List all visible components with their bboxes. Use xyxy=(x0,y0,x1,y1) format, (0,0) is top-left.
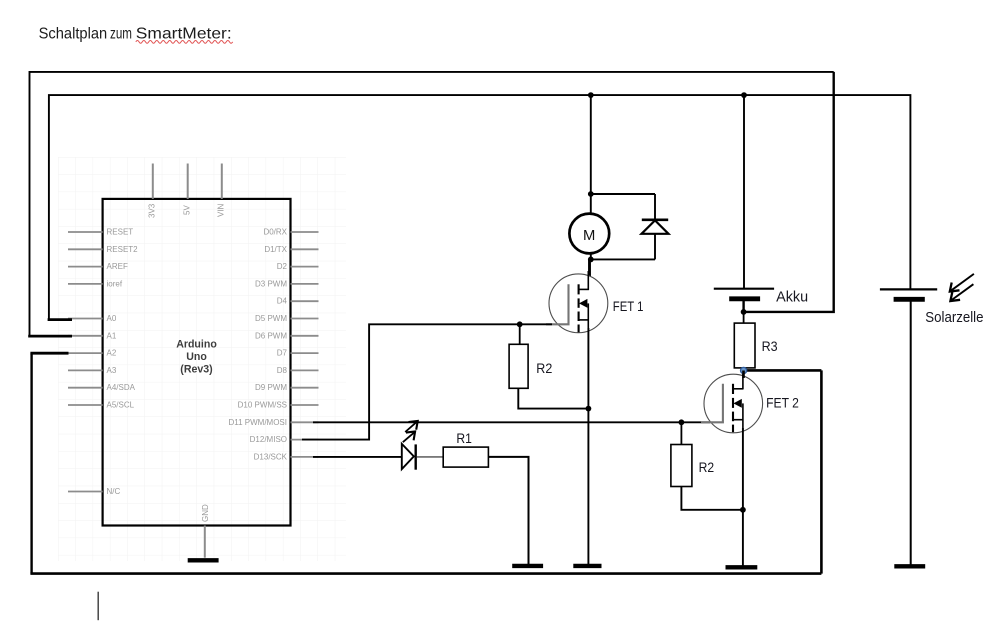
wire akku minus to junction xyxy=(742,301,744,312)
svg-text:A2: A2 xyxy=(107,349,117,358)
svg-text:N/C: N/C xyxy=(107,487,121,496)
pin 5V stub xyxy=(187,164,189,199)
svg-text:FET 1: FET 1 xyxy=(613,299,644,314)
svg-text:A5/SCL: A5/SCL xyxy=(107,401,135,410)
resistor R2 (FET1) bottom lead xyxy=(518,388,588,408)
node blue junction FET2 drain xyxy=(741,367,747,373)
diode D1 triangle xyxy=(642,220,669,233)
node junction motor top xyxy=(588,191,594,197)
svg-text:D6 PWM: D6 PWM xyxy=(255,331,287,340)
svg-text:A1: A1 xyxy=(107,331,117,340)
svg-text:Arduino: Arduino xyxy=(176,339,217,351)
wire bottom rail xyxy=(30,572,821,575)
pin VIN stub xyxy=(221,164,223,199)
LED arrow 1 xyxy=(403,432,415,443)
svg-text:Solarzelle: Solarzelle xyxy=(925,309,983,326)
pin GND stub xyxy=(204,526,206,558)
svg-text:VIN: VIN xyxy=(217,203,226,217)
wire motor bottom short xyxy=(590,253,592,259)
node junction gate R2a xyxy=(517,321,523,327)
svg-text:D9 PWM: D9 PWM xyxy=(255,383,287,392)
right pin stubs xyxy=(291,232,319,457)
resistor R2 (FET2) top lead xyxy=(680,422,682,444)
resistor R3 top lead xyxy=(743,312,745,323)
svg-text:ioref: ioref xyxy=(107,279,123,288)
top pin labels xyxy=(148,203,226,522)
spellcheck squiggle under SmartMeter xyxy=(136,41,233,44)
transistor FET 1 xyxy=(546,271,608,333)
ground Solarzelle xyxy=(894,564,925,568)
wire A2 net left drop xyxy=(30,353,32,573)
resistor R1 body xyxy=(443,447,488,467)
text cursor caret xyxy=(97,592,99,621)
svg-text:SchaltplanzumSmartMeter:: SchaltplanzumSmartMeter: xyxy=(39,25,232,42)
wire FET2 drain to riser xyxy=(744,369,822,372)
wire solarzelle down to ground xyxy=(910,302,912,567)
wire akku branch from rail xyxy=(743,95,745,289)
Arduino U1 body xyxy=(103,199,291,526)
svg-text:M: M xyxy=(583,228,595,244)
wire D12 net horizontal xyxy=(302,324,520,439)
svg-text:R2: R2 xyxy=(699,459,715,475)
ground R1 xyxy=(512,564,543,568)
node junction akku bottom xyxy=(741,309,747,315)
svg-text:R3: R3 xyxy=(762,338,778,354)
solar arrow 1 xyxy=(950,274,974,292)
resistor R3 bottom lead xyxy=(743,368,745,373)
wire LED to R1 xyxy=(417,456,443,458)
wire R1 to ground xyxy=(488,457,528,566)
svg-text:D7: D7 xyxy=(277,349,288,358)
svg-text:Akku: Akku xyxy=(776,289,808,306)
wire diode bottom to motor bottom xyxy=(591,258,655,260)
wire FET2 drain stub xyxy=(742,371,745,379)
svg-text:D13/SCK: D13/SCK xyxy=(254,452,288,461)
wire diode top lead xyxy=(654,194,656,220)
svg-text:FET 2: FET 2 xyxy=(766,396,799,411)
wire right riser to FET2 drain xyxy=(820,370,823,573)
wire right drop of outer loop xyxy=(744,72,834,312)
svg-text:D5 PWM: D5 PWM xyxy=(255,314,287,323)
node junction D11 R2b xyxy=(679,419,685,425)
svg-text:Uno: Uno xyxy=(186,351,207,363)
diode D1 cathode bar xyxy=(642,219,668,222)
wire inner rail A0 net xyxy=(49,95,911,320)
motor M1 circle xyxy=(569,214,609,254)
node junction R2b to FET2 source xyxy=(740,507,746,513)
LED D2 cathode bar xyxy=(415,444,417,469)
wire FET1 drain stub xyxy=(588,259,591,276)
ground FET1 source xyxy=(573,564,601,568)
svg-text:R2: R2 xyxy=(536,360,552,376)
resistor R2 (FET1) top lead xyxy=(519,324,521,344)
svg-text:5V: 5V xyxy=(183,205,192,215)
wire outer loop A1 net xyxy=(30,72,834,336)
ground FET2 source xyxy=(726,565,758,569)
battery Akku plate long xyxy=(714,288,774,290)
svg-text:D1/TX: D1/TX xyxy=(264,245,287,254)
battery Akku plate short thick xyxy=(729,296,760,301)
transistor FET 2 xyxy=(701,371,763,433)
left pin stubs xyxy=(68,232,103,492)
node junction R2a to FET1 source xyxy=(586,406,592,412)
solar arrow 2 xyxy=(950,284,973,301)
wire A1 to pin xyxy=(28,335,72,338)
svg-text:A4/SDA: A4/SDA xyxy=(107,383,136,392)
svg-text:D8: D8 xyxy=(277,366,288,375)
resistor R2 (FET2) body xyxy=(671,445,692,487)
node junction motor bottom xyxy=(588,257,594,263)
Arduino U1 label xyxy=(176,339,217,376)
svg-text:RESET2: RESET2 xyxy=(107,245,139,254)
wire A0 to pin xyxy=(48,318,72,321)
node junction rail-akku xyxy=(741,92,747,98)
svg-text:D11 PWM/MOSI: D11 PWM/MOSI xyxy=(228,418,287,427)
wire motor top to diode top xyxy=(591,193,655,195)
svg-text:GND: GND xyxy=(201,504,210,522)
svg-text:D12/MISO: D12/MISO xyxy=(250,435,287,444)
svg-text:A0: A0 xyxy=(107,314,117,323)
wire FET1 source down to ground xyxy=(587,328,589,566)
LED arrow 2 xyxy=(405,421,418,432)
battery Solarzelle plate short thick xyxy=(894,297,925,302)
node junction rail-motor xyxy=(588,92,594,98)
svg-text:D3 PWM: D3 PWM xyxy=(255,279,287,288)
wire motor branch from rail xyxy=(590,95,592,214)
battery Solarzelle plate long xyxy=(880,288,937,290)
background grid xyxy=(58,157,346,561)
wire FET1 gate from junction xyxy=(520,323,552,325)
svg-text:(Rev3): (Rev3) xyxy=(180,364,212,376)
LED D2 triangle xyxy=(402,444,414,469)
left pin labels xyxy=(107,228,139,497)
wire D11 net to FET2 gate xyxy=(313,421,681,423)
svg-text:A3: A3 xyxy=(107,366,117,375)
svg-text:D2: D2 xyxy=(277,262,288,271)
wire A2 to pin xyxy=(30,352,68,355)
svg-text:D4: D4 xyxy=(277,297,288,306)
resistor R2 (FET1) body xyxy=(509,344,528,388)
pin 3V3 stub xyxy=(152,164,154,199)
svg-text:3V3: 3V3 xyxy=(148,203,157,218)
svg-text:RESET: RESET xyxy=(107,228,134,237)
wire diode bottom lead xyxy=(654,234,656,260)
wire FET2 source down to ground xyxy=(742,428,744,567)
resistor R2 (FET2) bottom lead xyxy=(681,486,743,509)
ground Arduino GND xyxy=(188,558,219,562)
svg-text:D10 PWM/SS: D10 PWM/SS xyxy=(238,401,287,410)
wire FET2 gate lead xyxy=(681,421,710,423)
svg-text:D0/RX: D0/RX xyxy=(263,228,287,237)
resistor R3 body xyxy=(734,323,755,368)
wire D13 net to LED xyxy=(313,456,402,458)
svg-text:AREF: AREF xyxy=(107,262,128,271)
right pin labels xyxy=(228,228,287,462)
svg-text:R1: R1 xyxy=(456,430,472,446)
